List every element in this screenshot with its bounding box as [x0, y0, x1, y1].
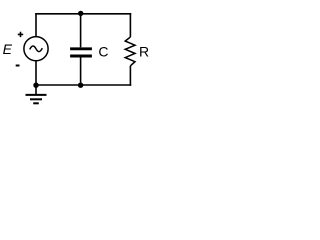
source sine wave	[30, 46, 42, 52]
source E (AC) circle	[24, 37, 48, 61]
svg-text:C: C	[98, 44, 108, 60]
wire capacitor top lead	[80, 13, 82, 47]
node top junction	[78, 11, 83, 16]
node bottom-left junction	[33, 83, 38, 88]
capacitor C bottom plate	[70, 55, 92, 58]
wire capacitor bottom lead	[80, 57, 82, 85]
svg-text:R: R	[139, 44, 149, 60]
ground bar 1	[26, 94, 47, 96]
ground bar 3	[33, 102, 39, 104]
wire ground stem	[35, 85, 37, 95]
wire resistor bottom lead	[129, 66, 131, 86]
wire top horizontal	[35, 13, 131, 15]
minus sign	[16, 65, 20, 67]
node capacitor bottom junction	[78, 83, 83, 88]
wire left vertical top (source top lead)	[35, 13, 37, 36]
wire source bottom lead	[35, 61, 37, 85]
wire bottom horizontal	[35, 84, 131, 86]
plus sign	[18, 32, 23, 37]
svg-text:E: E	[3, 41, 13, 57]
resistor R zigzag	[125, 37, 135, 66]
wire right vertical top (resistor top lead)	[129, 13, 131, 37]
capacitor C top plate	[70, 47, 92, 50]
ground bar 2	[30, 98, 42, 100]
